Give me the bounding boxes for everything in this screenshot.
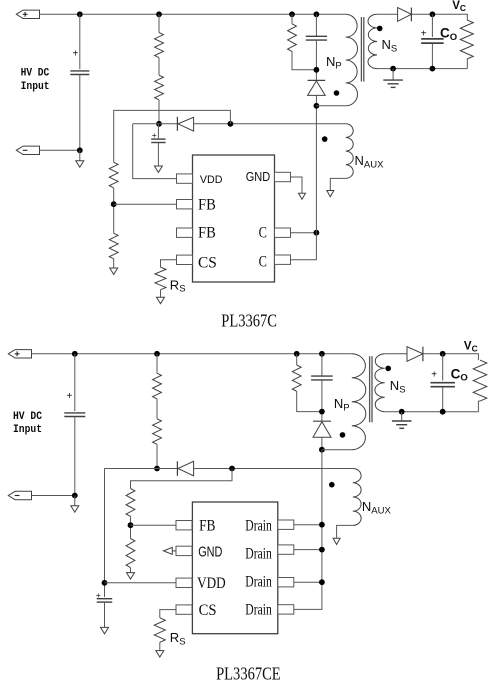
wire input + bus down (b)	[74, 354, 76, 411]
transformer core (top)	[360, 17, 362, 82]
wire Rs to ground (b)	[159, 642, 161, 650]
diode D-out (bottom ckt)	[407, 347, 423, 362]
resistor R-snub (top)	[288, 24, 297, 52]
resistor Rs (top)	[155, 267, 166, 290]
svg-text:Input: Input	[13, 424, 42, 436]
junction node primary bottom	[314, 103, 320, 109]
svg-text:Drain: Drain	[245, 601, 272, 618]
svg-text:Input: Input	[21, 81, 50, 93]
wire C-in to - rail	[79, 75, 81, 151]
terminal - (HV DC input, bottom ckt)	[8, 491, 31, 499]
ground arrow Rs (bottom)	[156, 651, 164, 657]
capacitor Co (bottom ckt)	[430, 382, 455, 384]
pin Drain2 of U2	[278, 545, 294, 554]
svg-text:NS: NS	[390, 378, 406, 396]
wire GND pin to ground	[291, 177, 303, 193]
svg-text:NS: NS	[382, 37, 398, 55]
earth ground secondary (bottom)	[392, 420, 412, 422]
ground arrow FB divider (bottom)	[127, 573, 135, 579]
wire Drain1 to bus (b)	[294, 524, 322, 526]
wire VDD line left segment	[133, 123, 178, 125]
svg-text:Drain: Drain	[245, 518, 272, 535]
junction node Drain1 (b)	[319, 522, 325, 528]
pin FB1 of U1	[177, 200, 193, 209]
wire startup resistors top (b)	[156, 354, 158, 373]
wire divider mid	[113, 188, 115, 234]
wire - rail	[40, 149, 80, 151]
junction node snubber-C	[314, 11, 320, 17]
svg-text:Drain: Drain	[245, 574, 272, 591]
resistor Rs (bottom)	[154, 618, 165, 643]
junction node snubber-C (b)	[319, 351, 325, 357]
polarity dot Np (top)	[334, 90, 340, 96]
pin FB of U2	[176, 521, 192, 530]
pin CS of U2	[176, 605, 192, 614]
resistor R-startup-2 (top)	[155, 75, 164, 100]
svg-text:FB: FB	[198, 197, 216, 214]
winding Ns secondary (top ckt)	[368, 14, 377, 68]
pin GND of U1	[275, 172, 291, 181]
polarity dot Ns (bottom)	[385, 366, 391, 372]
junction node snubber-R (b)	[294, 351, 300, 357]
wire snubber C top (b)	[321, 354, 323, 376]
svg-text:PL3367C: PL3367C	[221, 310, 277, 330]
diode D-clamp (top ckt)	[308, 79, 326, 81]
wire top rail	[40, 13, 346, 15]
capacitor C-vdd (top ckt)	[151, 138, 165, 140]
capacitor C-snub (bottom)	[311, 375, 333, 377]
diode D-clamp (bottom ckt)	[313, 420, 331, 422]
junction node startup (b)	[154, 351, 160, 357]
wire drain bus (b)	[294, 450, 322, 610]
wire input + bus down	[79, 14, 81, 69]
wire snubber R top (b)	[296, 354, 298, 365]
terminal - (HV DC input, top ckt)	[16, 146, 39, 154]
wire Co bottom (b)	[442, 387, 444, 412]
junction node startup	[156, 11, 162, 17]
svg-text:C: C	[259, 254, 267, 271]
diode D-vdd (top ckt)	[178, 117, 194, 131]
wire aux bottom (b)	[337, 525, 353, 538]
capacitor C-in (bottom ckt)	[64, 412, 85, 414]
wire C1 to drain bus	[291, 232, 317, 234]
wire FB to pin (b)	[131, 524, 177, 526]
junction node Co bottom	[430, 66, 436, 72]
diode D-out (top ckt)	[398, 8, 412, 22]
wire output top (b)	[423, 354, 479, 360]
wire clamp to primary node (b)	[321, 437, 323, 450]
junction node top-left (b)	[72, 351, 78, 357]
wire - rail (b)	[32, 495, 75, 497]
wire to input ground	[79, 150, 81, 161]
svg-text:NAUX: NAUX	[362, 499, 392, 517]
junction node - rail (b)	[72, 493, 78, 499]
pin CS of U1	[177, 255, 193, 264]
wire startup to VDD node (b)	[156, 444, 158, 468]
junction node Drain2 (b)	[319, 547, 325, 553]
wire startup resistors top	[158, 14, 160, 32]
svg-text:VDD: VDD	[197, 575, 226, 592]
svg-text:GND: GND	[246, 170, 271, 184]
svg-text:VDD: VDD	[200, 174, 223, 186]
ground arrow aux (top)	[327, 191, 334, 197]
pin VDD of U2	[176, 578, 192, 587]
winding Naux (top ckt)	[346, 124, 353, 179]
svg-text:CO: CO	[451, 366, 468, 383]
resistor R-fb-lower (bottom)	[126, 539, 135, 568]
ground arrow FB divider (top)	[110, 268, 118, 274]
svg-text:PL3367CE: PL3367CE	[216, 664, 281, 684]
svg-text:RS: RS	[170, 277, 186, 294]
ground arrow GND pin (bottom)	[172, 550, 176, 552]
junction node FB divider (b)	[128, 522, 134, 528]
capacitor Co (top ckt)	[421, 38, 444, 40]
wire divider mid (b)	[130, 516, 132, 538]
svg-text:HV DC: HV DC	[21, 68, 50, 80]
pin GND of U2	[176, 546, 192, 555]
wire snubber C bottom	[315, 40, 317, 80]
svg-text:C: C	[259, 225, 267, 242]
wire load bottom (b)	[478, 401, 480, 412]
junction node divider tap (b)	[229, 466, 235, 472]
wire primary bottom (b)	[322, 449, 352, 451]
wire VDD line left segment (b)	[105, 468, 178, 470]
resistor R-snub (bottom)	[292, 365, 301, 391]
junction node sec gnd (b)	[399, 409, 405, 415]
pin VDD of U1	[177, 174, 193, 183]
junction node sec gnd	[390, 66, 396, 72]
wire primary bottom	[316, 105, 345, 107]
junction node VDD cap (b)	[102, 580, 108, 586]
capacitor C-in (top ckt)	[70, 70, 89, 72]
wire Drain3 to bus (b)	[294, 581, 322, 583]
wire snubber C top	[315, 14, 317, 36]
wire VDD pin route	[133, 124, 177, 179]
svg-text:NP: NP	[334, 396, 350, 414]
wire VDD line right segment to aux	[194, 123, 346, 125]
pin C1 of U1	[275, 228, 291, 237]
pin Drain3 of U2	[278, 578, 294, 587]
wire C-vdd to ground (b)	[104, 602, 106, 627]
wire divider top loop (b)	[131, 469, 233, 489]
winding Np primary (top ckt)	[346, 14, 358, 106]
capacitor C-vdd (bottom ckt)	[97, 598, 113, 600]
wire C-in to - rail (b)	[74, 417, 76, 496]
resistor R-startup-1 (bottom)	[153, 373, 162, 399]
resistor R-fb-lower (top)	[109, 233, 118, 258]
wire Drain2 to bus (b)	[294, 549, 322, 551]
svg-text:FB: FB	[198, 225, 216, 242]
resistor R-startup-2 (bottom)	[153, 419, 162, 445]
diode D-vdd (bottom ckt)	[178, 461, 194, 476]
svg-text:VC: VC	[464, 340, 478, 353]
junction node Co top	[430, 11, 436, 17]
pin Drain4 of U2	[278, 605, 294, 614]
svg-text:Drain: Drain	[245, 546, 272, 563]
svg-text:NAUX: NAUX	[355, 153, 385, 171]
svg-text:+: +	[431, 370, 437, 381]
wire output bottom	[377, 68, 467, 70]
IC U1 PL3367C body	[193, 155, 275, 282]
junction node C1	[314, 230, 320, 236]
winding Ns secondary (bottom ckt)	[375, 354, 385, 412]
wire to input ground (b)	[74, 496, 76, 506]
wire Ns to output diode	[377, 13, 398, 15]
svg-text:CO: CO	[440, 26, 457, 43]
svg-text:CS: CS	[199, 602, 217, 619]
svg-text:+: +	[421, 28, 427, 39]
terminal + (HV DC input, top ckt)	[16, 10, 39, 18]
ground arrow input (bottom)	[71, 506, 79, 512]
wire between startup resistors	[158, 58, 160, 76]
wire snubber R bottom (b)	[297, 391, 322, 411]
wire FB to pin	[114, 203, 177, 205]
ground arrow Rs (top)	[157, 297, 165, 303]
svg-text:+: +	[73, 49, 79, 60]
wire load bottom	[466, 59, 469, 68]
svg-text:RS: RS	[170, 630, 186, 647]
svg-text:VC: VC	[452, 0, 466, 13]
wire divider to ground	[113, 259, 115, 268]
capacitor C-snub (top)	[306, 35, 327, 37]
polarity dot Naux (top)	[322, 136, 328, 142]
pin Drain1 of U2	[278, 520, 294, 529]
wire Ns to output diode (b)	[385, 353, 407, 355]
junction node VDD-cap	[156, 121, 162, 127]
svg-text:NP: NP	[326, 54, 342, 72]
svg-text:+: +	[96, 590, 101, 600]
polarity dot Ns (top)	[377, 26, 383, 32]
svg-text:+: +	[67, 391, 73, 402]
svg-text:CS: CS	[198, 254, 217, 271]
junction node clamp	[314, 67, 320, 73]
earth ground secondary (top)	[383, 79, 403, 81]
wire snubber C bottom (b)	[321, 380, 323, 421]
svg-text:FB: FB	[199, 518, 215, 535]
polarity dot Naux (bottom)	[329, 482, 335, 488]
wire VDD line right to aux (b)	[194, 468, 353, 470]
junction node snubber-R	[289, 11, 295, 17]
wire C2 to drain bus	[291, 106, 317, 260]
terminal + (HV DC input, bottom ckt)	[8, 350, 31, 358]
wire clamp to primary node	[315, 95, 317, 105]
wire Co bottom	[431, 43, 433, 69]
winding Np primary (bottom ckt)	[352, 354, 366, 450]
wire FB bypass loop	[114, 110, 231, 162]
wire startup to VDD node	[158, 100, 160, 124]
svg-text:HV DC: HV DC	[13, 411, 42, 423]
wire output top	[411, 14, 467, 19]
junction node Drain3 (b)	[319, 579, 325, 585]
wire aux bottom	[330, 178, 346, 190]
wire Rs to ground	[160, 290, 162, 298]
wire snubber R bottom	[292, 51, 316, 69]
wire VDD cap node down	[157, 124, 159, 138]
ground arrow aux (bottom)	[333, 538, 340, 544]
resistor R-fb-upper (bottom)	[126, 489, 135, 517]
ground arrow C-vdd (bottom)	[101, 627, 109, 633]
wire between startup resistors (b)	[156, 399, 158, 419]
svg-text:GND: GND	[198, 545, 222, 561]
transformer core (bottom)	[369, 356, 371, 422]
IC U2 PL3367CE body	[192, 502, 277, 634]
wire Co top	[431, 14, 433, 37]
polarity dot Np (bottom)	[340, 432, 346, 438]
junction node primary bottom (b)	[319, 447, 325, 453]
wire sec ground stem (b)	[401, 412, 403, 421]
wire snubber R top	[291, 14, 293, 23]
wire Co top (b)	[442, 354, 444, 381]
junction node Co top (b)	[440, 351, 446, 357]
junction node - rail	[77, 147, 83, 153]
junction node top-left	[77, 11, 83, 17]
resistor R-load (bottom)	[473, 360, 487, 401]
junction node aux-diode	[228, 121, 234, 127]
svg-text:+: +	[152, 130, 157, 140]
junction node FB divider	[111, 201, 117, 207]
junction node Co bottom (b)	[440, 409, 446, 415]
ground arrow GND pin (top)	[299, 193, 306, 199]
wire VDD vertical (b)	[104, 469, 106, 598]
wire top rail (bottom ckt)	[32, 353, 352, 355]
pin C2 of U1	[275, 255, 291, 264]
wire output bottom (b)	[385, 411, 479, 413]
wire CS to Rs (b)	[160, 610, 176, 618]
resistor R-load (top)	[460, 20, 473, 59]
resistor R-fb-upper (top)	[109, 162, 118, 188]
resistor R-startup-1 (top)	[155, 33, 164, 58]
junction node VDD line (b)	[154, 466, 160, 472]
wire C-vdd to ground	[157, 143, 159, 167]
ground arrow C-vdd (top)	[154, 166, 162, 172]
ground arrow input (top)	[76, 161, 84, 167]
wire sec ground stem	[392, 69, 394, 81]
pin FB2 of U1	[177, 228, 193, 237]
winding Naux (bottom ckt)	[353, 469, 361, 526]
wire VDD to pin (b)	[105, 582, 177, 584]
wire divider to ground (b)	[130, 568, 132, 573]
junction node clamp (b)	[319, 409, 325, 415]
wire CS to Rs	[161, 260, 177, 267]
